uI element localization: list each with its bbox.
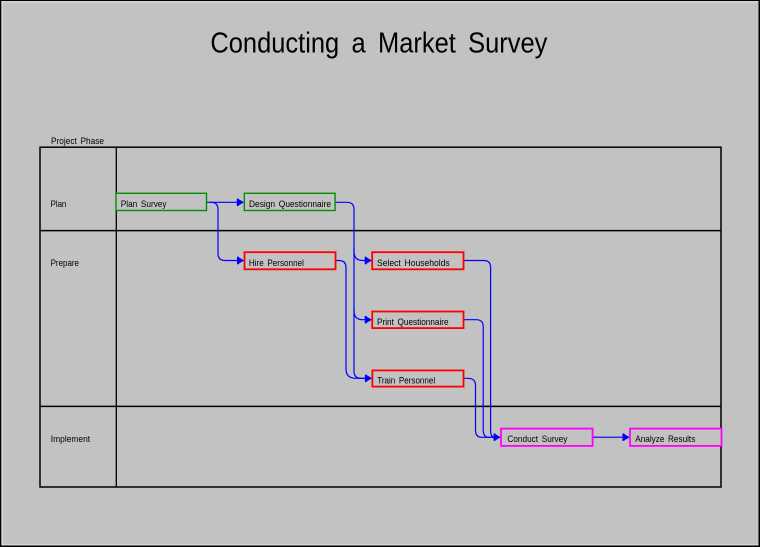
table column divider [115,147,117,487]
connector: Conduct Survey to Analyze Results [593,434,630,441]
activity box: Print Questionnaire [372,312,463,329]
svg-text:Project Phase: Project Phase [51,136,104,146]
frame inner highlight top [1,1,758,2]
activity box: Design Questionnaire [244,193,335,210]
connector: Select Households to Conduct Survey [464,261,495,438]
connector: Train Personnel to Conduct Survey [464,378,501,441]
activity box: Conduct Survey [501,429,593,446]
frame inner highlight left [1,1,2,545]
svg-text:Conduct Survey: Conduct Survey [507,434,567,444]
page border frame right [759,0,760,547]
connector: Plan Survey to Design Questionnaire [207,199,245,206]
svg-text:Analyze Results: Analyze Results [635,434,695,444]
connector: Print Questionnaire to Conduct Survey [464,320,494,438]
svg-text:Plan Survey: Plan Survey [121,199,167,209]
activity box: Hire Personnel [245,252,336,269]
svg-text:Design Questionnaire: Design Questionnaire [249,199,331,209]
row divider Prepare/Implement [40,405,721,407]
svg-text:Conducting a Market Survey: Conducting a Market Survey [210,28,547,60]
svg-text:Print Questionnaire: Print Questionnaire [377,317,449,327]
table outer frame [40,147,721,487]
connector branch: Design Questionnaire to Select Households [354,248,372,264]
svg-text:Prepare: Prepare [51,258,79,268]
activity box: Select Households [372,252,463,269]
svg-text:Select Households: Select Households [377,258,450,268]
page border frame bottom [0,546,760,547]
activity box: Plan Survey [116,193,207,210]
svg-text:Train Personnel: Train Personnel [377,376,435,386]
connector: Plan Survey to Hire Personnel [210,202,244,264]
connector: Design Questionnaire to Train Personnel (long vertical) [335,202,365,378]
row divider Plan/Prepare [40,230,721,232]
svg-text:Implement: Implement [51,434,91,444]
svg-text:Plan: Plan [51,199,67,209]
svg-text:Hire Personnel: Hire Personnel [249,258,304,268]
page border frame top [0,0,760,1]
page border frame left [0,0,1,547]
activity box: Analyze Results [630,429,722,446]
connector branch: Design Questionnaire to Print Questionnaire [354,307,372,323]
frame inner highlight bottom [3,544,759,545]
connector: Hire Personnel to Train Personnel [336,261,373,383]
activity box: Train Personnel [372,370,463,386]
